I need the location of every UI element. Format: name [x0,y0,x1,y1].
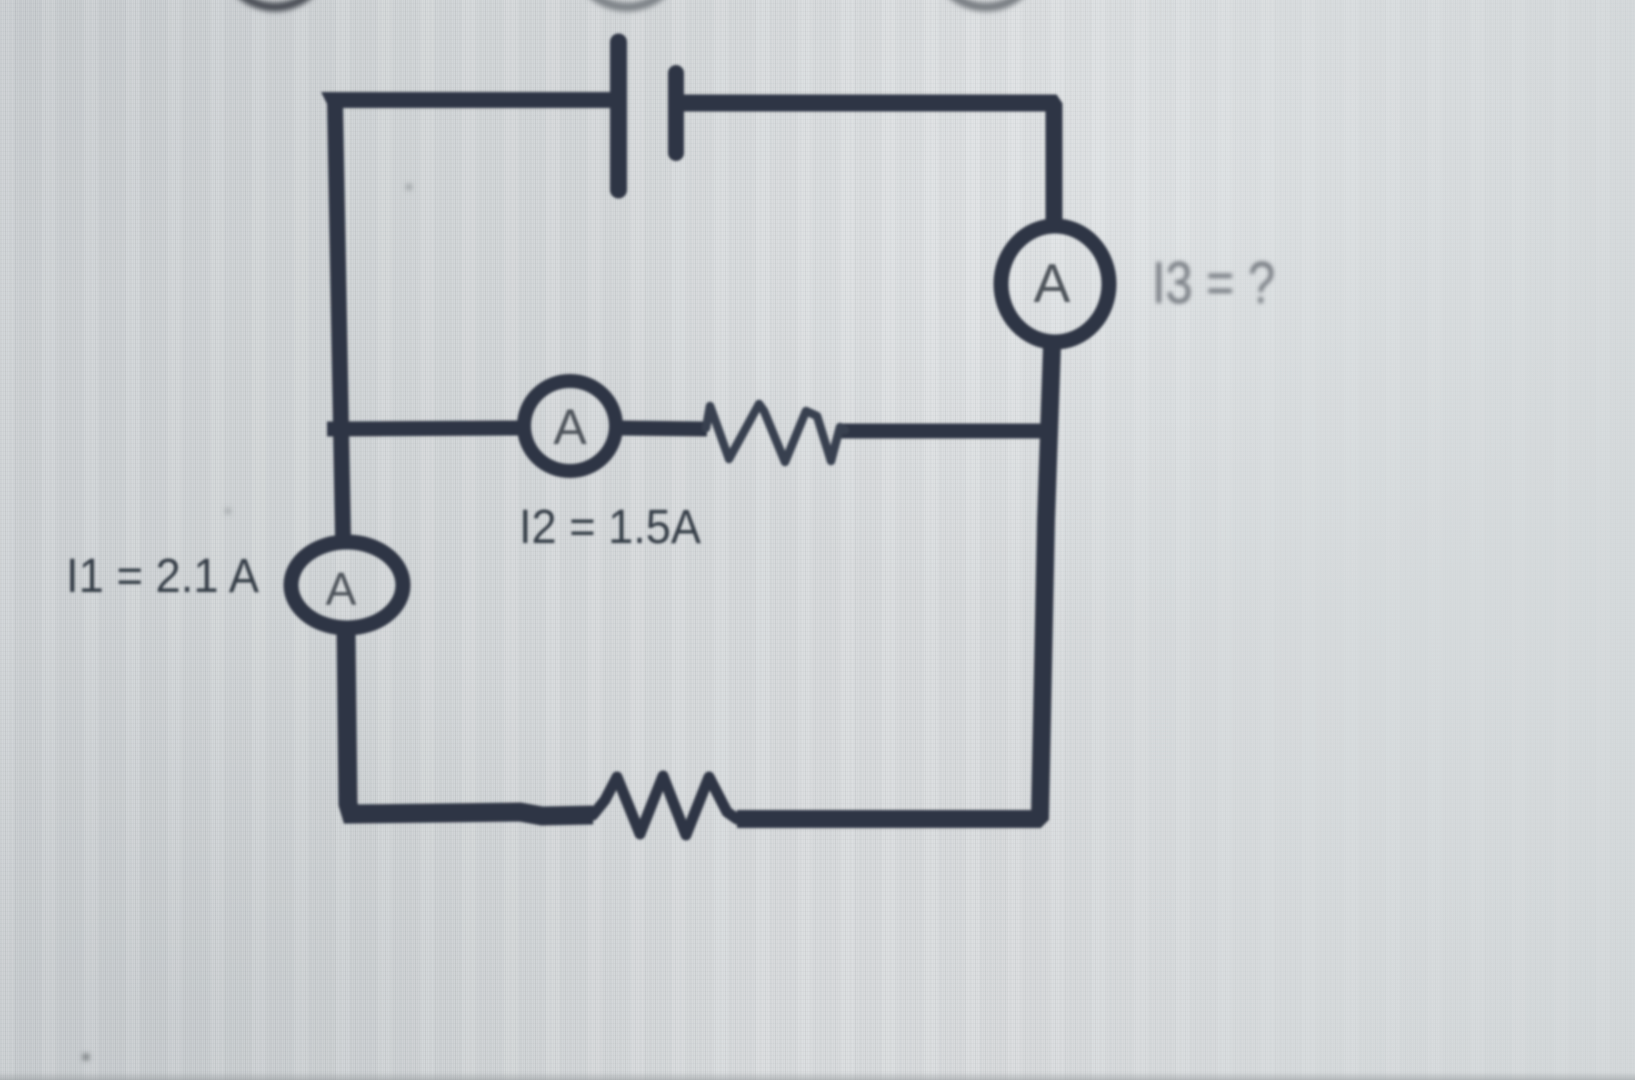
svg-text:A: A [553,399,587,455]
svg-text:I3 = ?: I3 = ? [1152,250,1275,316]
svg-text:A: A [326,563,357,615]
svg-text:A: A [1034,252,1071,314]
svg-text:I2 = 1.5A: I2 = 1.5A [519,501,701,554]
svg-text:I1 = 2.1 A: I1 = 2.1 A [66,550,259,603]
